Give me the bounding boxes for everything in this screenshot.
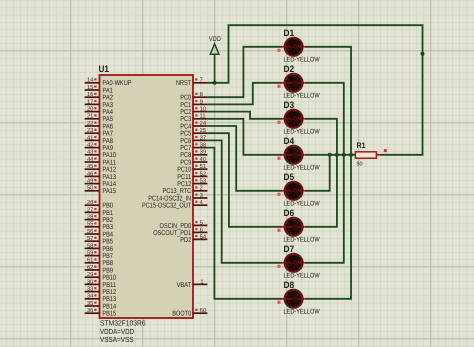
svg-text:PC8: PC8 — [180, 152, 191, 159]
MCU U1 body — [100, 75, 194, 318]
U1 pin 4 PC15-OSC32_OUT (right) — [142, 200, 207, 210]
U1 pin 26 PB0 (left) — [85, 199, 113, 210]
U1 pin 43 PA10 (left) — [85, 149, 117, 160]
LED D8 — [277, 290, 306, 308]
U1 pin 44 PA11 (left) — [85, 157, 117, 167]
svg-text:10: 10 — [200, 106, 206, 113]
svg-text:PA6: PA6 — [102, 123, 113, 130]
svg-text:50: 50 — [87, 185, 93, 192]
wire D1 anode to net row — [305, 47, 351, 155]
svg-text:25: 25 — [200, 127, 206, 134]
U1 pin 59 PB7 (left) — [85, 250, 113, 261]
svg-text:D3: D3 — [284, 100, 295, 110]
svg-text:PB0: PB0 — [102, 203, 113, 210]
U1 pin 28 PB2 (left) — [85, 214, 113, 225]
LED D2 — [277, 74, 306, 92]
svg-text:52: 52 — [200, 170, 206, 177]
U1 pin 2 PC13_RTC (right) — [163, 185, 208, 196]
svg-text:51: 51 — [200, 164, 206, 170]
svg-text:35: 35 — [87, 300, 93, 307]
U1 pin 21 PA5 (left) — [85, 113, 113, 124]
U1 pin 52 PC11 (right) — [177, 170, 207, 181]
U1 pin 24 PC4 (right) — [180, 120, 207, 130]
svg-text:45: 45 — [87, 164, 93, 170]
svg-text:PC1: PC1 — [180, 102, 191, 109]
U1 pin 39 PC8 (right) — [180, 149, 207, 160]
svg-text:LED-YELLOW: LED-YELLOW — [284, 165, 321, 172]
U1 pin 51 PC10 (right) — [177, 164, 207, 174]
svg-text:PC15-OSC32_OUT: PC15-OSC32_OUT — [142, 203, 192, 210]
svg-text:53: 53 — [200, 178, 206, 185]
svg-text:D1: D1 — [284, 28, 295, 38]
svg-text:D8: D8 — [284, 280, 295, 290]
wire PC0 pin8 to D1 cathode — [207, 47, 282, 97]
svg-text:42: 42 — [87, 142, 93, 149]
svg-text:PB3: PB3 — [102, 224, 113, 231]
svg-text:39: 39 — [200, 149, 206, 156]
svg-text:28: 28 — [87, 214, 93, 221]
U1 pin 60 BOOT0 (right) — [172, 307, 207, 318]
U1 pin 25 PC5 (right) — [180, 127, 207, 138]
svg-text:21: 21 — [87, 113, 93, 120]
svg-text:PA5: PA5 — [102, 116, 113, 123]
svg-text:BOOT0: BOOT0 — [172, 311, 191, 318]
svg-text:LED-YELLOW: LED-YELLOW — [284, 237, 321, 244]
wire D3 anode to net row — [305, 119, 337, 155]
U1 pin 45 PA12 (left) — [85, 164, 117, 174]
svg-text:40: 40 — [200, 156, 206, 163]
U1 pin 16 PA2 (left) — [85, 91, 113, 102]
junction anode bus at x=351.4 — [349, 153, 353, 157]
U1 pin 14 PA0-WKUP (left) — [85, 78, 132, 88]
U1 pin 29 PB10 (left) — [85, 271, 117, 282]
svg-text:D2: D2 — [284, 64, 295, 74]
U1 pin 35 PB14 (left) — [85, 300, 117, 311]
LED D5 — [277, 182, 306, 200]
U1 pin 53 PC12 (right) — [177, 178, 207, 189]
svg-text:36: 36 — [87, 307, 93, 314]
junction anode bus at x=337 — [335, 153, 339, 157]
svg-text:LED-YELLOW: LED-YELLOW — [284, 201, 321, 208]
svg-text:PC3: PC3 — [180, 116, 191, 123]
LED D7 — [277, 254, 306, 272]
svg-text:PA13: PA13 — [102, 174, 116, 181]
svg-text:44: 44 — [87, 157, 94, 163]
svg-text:D7: D7 — [284, 244, 295, 254]
svg-text:LED-YELLOW: LED-YELLOW — [284, 57, 321, 64]
svg-text:PA4: PA4 — [102, 109, 113, 116]
wire D8 anode to net row — [305, 155, 351, 299]
svg-text:PA2: PA2 — [102, 95, 113, 102]
wire PC6 pin37 to D7 cathode — [207, 140, 282, 262]
svg-text:PC5: PC5 — [180, 131, 191, 138]
svg-text:D6: D6 — [284, 208, 295, 218]
svg-text:LED-YELLOW: LED-YELLOW — [284, 273, 321, 280]
svg-text:PC2: PC2 — [180, 109, 191, 116]
svg-text:3: 3 — [200, 192, 203, 199]
junction anode bus at x=344.2 — [342, 153, 346, 157]
U1 pin 1 VBAT (right) — [177, 279, 208, 289]
svg-text:1: 1 — [200, 279, 203, 285]
svg-text:57: 57 — [87, 236, 93, 242]
svg-text:PC0: PC0 — [180, 95, 191, 102]
U1 pin 50 PA15 (left) — [85, 185, 117, 196]
svg-text:38: 38 — [200, 142, 206, 149]
svg-text:55: 55 — [87, 222, 93, 228]
svg-text:5: 5 — [200, 220, 203, 226]
svg-text:23: 23 — [87, 127, 93, 134]
wire PC7 pin38 to D8 cathode — [207, 148, 282, 299]
svg-text:VBAT: VBAT — [177, 282, 192, 289]
svg-text:6: 6 — [200, 226, 203, 233]
U1 pin 7 NRST (right) — [176, 78, 207, 88]
svg-text:PB5: PB5 — [102, 239, 113, 246]
svg-text:60: 60 — [200, 307, 206, 314]
U1 pin 57 PB5 (left) — [85, 236, 113, 246]
svg-text:15: 15 — [87, 85, 93, 91]
U1 pin 40 PC9 (right) — [180, 156, 207, 167]
svg-text:PB4: PB4 — [102, 231, 113, 238]
wire D4 anode to R1 (net row) — [305, 154, 356, 156]
U1 pin 33 PB12 (left) — [85, 286, 117, 297]
U1 pin 46 PA13 (left) — [85, 170, 117, 181]
U1 pin 54 PD2 (right) — [180, 234, 207, 244]
U1 pin 30 PB11 (left) — [85, 278, 117, 289]
svg-text:50: 50 — [357, 161, 363, 167]
U1 pin 38 PC7 (right) — [180, 142, 207, 153]
U1 pin 34 PB13 (left) — [85, 293, 117, 304]
svg-text:56: 56 — [87, 228, 93, 235]
svg-text:U1: U1 — [99, 64, 110, 75]
U1 pin 56 PB4 (left) — [85, 228, 113, 239]
svg-text:PB8: PB8 — [102, 260, 113, 267]
wire PC2 pin10 to D3 cathode — [207, 112, 282, 119]
svg-text:33: 33 — [87, 286, 93, 293]
svg-text:VSSA=VSS: VSSA=VSS — [100, 335, 134, 344]
svg-text:PD2: PD2 — [180, 237, 191, 244]
svg-text:PA7: PA7 — [102, 131, 113, 138]
svg-text:PA14: PA14 — [102, 181, 116, 188]
svg-text:46: 46 — [87, 170, 93, 177]
svg-text:PC7: PC7 — [180, 145, 191, 152]
U1 pin 17 PA3 (left) — [85, 99, 113, 109]
svg-text:LED-YELLOW: LED-YELLOW — [284, 309, 321, 316]
svg-text:PB11: PB11 — [102, 282, 116, 289]
U1 pin 10 PC2 (right) — [180, 106, 207, 117]
U1 pin 20 PA4 (left) — [85, 106, 113, 117]
svg-text:7: 7 — [200, 78, 203, 84]
LED D4 — [277, 146, 306, 164]
wire D5 anode to net row — [305, 155, 330, 191]
svg-text:37: 37 — [200, 134, 206, 141]
svg-text:PB1: PB1 — [102, 210, 113, 217]
svg-text:PA10: PA10 — [102, 152, 116, 159]
svg-text:27: 27 — [87, 206, 93, 213]
wire NRST/VDD net: pin7 right, up and across top, down right rail to R1 — [207, 25, 422, 155]
svg-text:PC11: PC11 — [177, 174, 191, 181]
svg-text:PB7: PB7 — [102, 253, 113, 260]
svg-text:OSCOUT_PD1: OSCOUT_PD1 — [153, 230, 191, 237]
wire D7 anode to net row — [305, 155, 344, 263]
svg-text:PC14-OSC32_IN: PC14-OSC32_IN — [148, 195, 191, 202]
U1 pin 8 PC0 (right) — [180, 91, 207, 102]
svg-text:PB10: PB10 — [102, 275, 116, 282]
svg-text:D5: D5 — [284, 172, 295, 182]
U1 pin 3 PC14-OSC32_IN (right) — [148, 192, 207, 203]
svg-text:34: 34 — [87, 293, 94, 300]
svg-text:PC6: PC6 — [180, 138, 191, 145]
junction on right rail — [421, 52, 425, 56]
svg-text:49: 49 — [87, 178, 93, 185]
U1 pin 6 OSCOUT_PD1 (right) — [153, 226, 207, 237]
U1 pin 11 PC3 (right) — [180, 114, 207, 124]
svg-text:PB6: PB6 — [102, 246, 113, 253]
resistor R1 — [355, 149, 386, 158]
svg-text:43: 43 — [87, 149, 93, 156]
svg-text:PB2: PB2 — [102, 217, 113, 224]
U1 pin 61 PB8 (left) — [85, 257, 113, 268]
svg-text:14: 14 — [87, 78, 94, 84]
power VDD — [210, 44, 219, 83]
U1 pin 15 PA1 (left) — [85, 85, 113, 95]
U1 pin 58 PB6 (left) — [85, 242, 113, 253]
svg-text:PA9: PA9 — [102, 145, 113, 152]
LED D6 — [277, 218, 306, 236]
svg-text:2: 2 — [200, 185, 203, 192]
svg-text:41: 41 — [87, 135, 93, 141]
svg-text:PC4: PC4 — [180, 123, 191, 130]
svg-text:PA8: PA8 — [102, 138, 113, 145]
svg-text:PC13_RTC: PC13_RTC — [163, 188, 192, 195]
junction anode bus at x=329.8 — [328, 153, 332, 157]
wire PC1 pin9 to D2 cathode — [207, 83, 282, 105]
svg-text:PA12: PA12 — [102, 167, 116, 174]
svg-text:PA3: PA3 — [102, 102, 113, 109]
wire D6 anode to net row — [305, 155, 337, 227]
svg-text:16: 16 — [87, 91, 93, 98]
svg-text:PA0-WKUP: PA0-WKUP — [102, 80, 131, 87]
wire PC4 pin24 to D5 cathode — [207, 126, 282, 191]
svg-text:58: 58 — [87, 242, 93, 249]
svg-text:PC12: PC12 — [177, 181, 191, 188]
svg-text:61: 61 — [87, 257, 93, 264]
LED D3 — [277, 110, 306, 128]
svg-text:9: 9 — [200, 98, 203, 105]
svg-text:PA11: PA11 — [102, 159, 116, 166]
svg-text:OSCIN_PD0: OSCIN_PD0 — [160, 223, 192, 230]
svg-text:PB13: PB13 — [102, 296, 116, 303]
U1 pin 37 PC6 (right) — [180, 134, 207, 145]
svg-text:20: 20 — [87, 106, 93, 113]
svg-text:22: 22 — [87, 120, 93, 127]
junction VDD stem on NRST wire — [213, 81, 217, 85]
svg-text:30: 30 — [87, 278, 93, 285]
svg-text:26: 26 — [87, 199, 93, 206]
svg-text:59: 59 — [87, 250, 93, 257]
U1 pin 55 PB3 (left) — [85, 222, 113, 232]
svg-text:LED-YELLOW: LED-YELLOW — [284, 93, 321, 100]
U1 pin 36 PB15 (left) — [85, 307, 117, 318]
svg-text:62: 62 — [87, 264, 93, 271]
wire PC5 pin25 to D6 cathode — [207, 133, 282, 227]
svg-text:24: 24 — [200, 120, 207, 127]
svg-text:PC9: PC9 — [180, 159, 191, 166]
svg-text:PC10: PC10 — [177, 167, 191, 174]
wire D2 anode to net row — [305, 83, 344, 155]
svg-text:PA15: PA15 — [102, 188, 116, 195]
wire PC3 pin11 to D4 cathode — [207, 119, 282, 155]
U1 pin 23 PA7 (left) — [85, 127, 113, 138]
U1 pin 27 PB1 (left) — [85, 206, 113, 217]
svg-text:PB15: PB15 — [102, 311, 116, 318]
U1 pin 5 OSCIN_PD0 (right) — [160, 220, 208, 230]
svg-text:11: 11 — [200, 114, 206, 120]
svg-text:PB14: PB14 — [102, 303, 116, 310]
U1 pin 42 PA9 (left) — [85, 142, 113, 153]
U1 pin 49 PA14 (left) — [85, 178, 117, 189]
svg-text:VDD: VDD — [209, 36, 221, 43]
svg-text:29: 29 — [87, 271, 93, 278]
U1 pin 22 PA6 (left) — [85, 120, 113, 130]
svg-text:54: 54 — [200, 234, 207, 240]
svg-text:D4: D4 — [284, 136, 295, 146]
svg-text:17: 17 — [87, 99, 93, 105]
svg-text:NRST: NRST — [176, 80, 192, 87]
U1 pin 41 PA8 (left) — [85, 135, 113, 145]
svg-text:PB9: PB9 — [102, 267, 113, 274]
U1 pin 62 PB9 (left) — [85, 264, 113, 275]
svg-text:LED-YELLOW: LED-YELLOW — [284, 129, 321, 136]
U1 pin 9 PC1 (right) — [180, 98, 207, 109]
svg-text:PB12: PB12 — [102, 289, 116, 296]
LED D1 — [277, 38, 306, 56]
svg-text:8: 8 — [200, 91, 203, 98]
svg-text:PA1: PA1 — [102, 87, 113, 94]
svg-text:R1: R1 — [357, 141, 366, 150]
